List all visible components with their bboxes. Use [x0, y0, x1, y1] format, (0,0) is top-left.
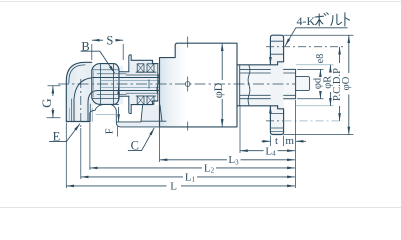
svg-text:L1: L1 — [185, 171, 196, 183]
PCD centerline top — [266, 46, 343, 48]
elbow wall inner arc — [69, 65, 85, 83]
inner tube — [296, 77, 310, 91]
elbow inlet thread lines — [71, 99, 73, 122]
page top border — [0, 1, 401, 3]
flange fill — [270, 35, 283, 134]
svg-text:e8: e8 — [315, 54, 326, 63]
gland top ear — [129, 55, 131, 72]
gland right pipe break wave — [157, 74, 159, 95]
gland spring pockets bottom — [137, 96, 144, 104]
svg-text:L4: L4 — [265, 145, 276, 157]
katakana ru — [331, 14, 342, 25]
dim phiO — [348, 35, 350, 73]
tube fill — [296, 77, 310, 91]
shaft right of flange — [284, 69, 296, 98]
dim PCD — [339, 47, 341, 63]
nut-tail bottom line — [99, 103, 119, 105]
main axis centerline — [58, 83, 295, 85]
dim phid — [319, 69, 321, 74]
S extensions — [92, 44, 123, 60]
svg-text:E: E — [53, 129, 61, 143]
svg-text:C: C — [131, 139, 139, 153]
elbow inlet bore walls — [74, 78, 92, 122]
nut outline — [92, 64, 119, 105]
stop bracket bell — [90, 105, 116, 113]
extension lines — [47, 35, 354, 188]
svg-text:φO: φO — [341, 76, 352, 90]
gland foot — [141, 105, 162, 121]
leaders — [49, 28, 348, 151]
svg-text:φD: φD — [211, 82, 225, 98]
dimensions — [53, 35, 349, 186]
shaft bore lines — [284, 73, 296, 95]
bracket slot line — [96, 114, 117, 116]
katakana to — [345, 13, 350, 26]
hub arrows on flange face — [269, 58, 271, 65]
elbow body fill — [66, 62, 92, 121]
PCD centerline bottom — [284, 120, 343, 122]
elbow fillet wedge fill — [90, 104, 99, 113]
leader C — [128, 128, 154, 151]
leader F underline — [117, 127, 119, 137]
inner pipe lines — [100, 81, 160, 88]
dim L4 — [240, 150, 264, 152]
foot base plate — [116, 110, 166, 127]
svg-text:B: B — [81, 40, 89, 54]
bore lines through nut and gland — [93, 78, 160, 91]
gland bottom ear — [129, 96, 131, 113]
gland vertical center tick — [148, 80, 150, 89]
inlet thread shading — [69, 108, 92, 122]
gland bottom profile — [131, 101, 158, 105]
svg-text:F: F — [105, 128, 116, 134]
gland right face — [157, 64, 159, 101]
inlet centerline — [80, 79, 82, 128]
leader B — [81, 51, 115, 73]
svg-text:L3: L3 — [228, 154, 239, 166]
gland fill — [119, 55, 158, 114]
gland spring pockets top — [137, 64, 144, 72]
page bottom border — [0, 207, 401, 209]
elbow outline — [66, 62, 92, 121]
svg-text:L: L — [170, 180, 177, 192]
gland seal bore lines — [126, 75, 158, 93]
gland top profile — [131, 60, 158, 63]
centerlines — [58, 37, 343, 131]
dim L2 — [90, 167, 202, 169]
thread lines under nut — [97, 74, 126, 95]
dim m tails — [296, 140, 306, 142]
nut fill — [92, 64, 119, 105]
flange bolt hole lines — [270, 41, 283, 54]
svg-text:S: S — [106, 34, 113, 48]
label 4-K bolt katakana — [315, 13, 349, 26]
svg-text:m: m — [285, 135, 294, 147]
rotor cover plate edge — [239, 65, 241, 106]
foot and base plate fill — [116, 105, 166, 127]
dim phiD — [221, 43, 223, 80]
svg-text:G: G — [39, 98, 54, 107]
dim phiR — [329, 65, 331, 73]
dim G — [52, 86, 54, 96]
svg-text:L2: L2 — [204, 162, 215, 174]
body outline — [160, 43, 238, 127]
dim L — [66, 185, 166, 187]
katakana bo — [315, 13, 328, 26]
nut facets — [100, 64, 113, 104]
spigot notch fills — [278, 62, 284, 65]
dim S — [92, 39, 103, 41]
svg-text:4-K: 4-K — [297, 14, 316, 28]
dim F — [118, 86, 120, 101]
dim L3 — [160, 159, 228, 161]
dim t tails — [262, 140, 271, 142]
leader E — [49, 124, 80, 142]
elbow tail fill — [90, 66, 123, 104]
gland neck lines — [119, 72, 129, 96]
G extensions — [47, 86, 61, 118]
dim L1 — [81, 176, 183, 178]
hub fill — [237, 65, 270, 106]
shaft fill — [240, 69, 296, 98]
wavy break line — [248, 66, 250, 106]
right extensions — [284, 34, 354, 36]
shaft lines — [240, 69, 270, 98]
hub cylinder — [237, 65, 278, 106]
body fill — [160, 43, 238, 127]
bottom verticals — [65, 123, 67, 189]
svg-text:t: t — [275, 135, 278, 147]
flange outline — [270, 35, 283, 65]
body vertical centerline — [187, 37, 189, 131]
leader 4-K bolt — [285, 28, 347, 46]
